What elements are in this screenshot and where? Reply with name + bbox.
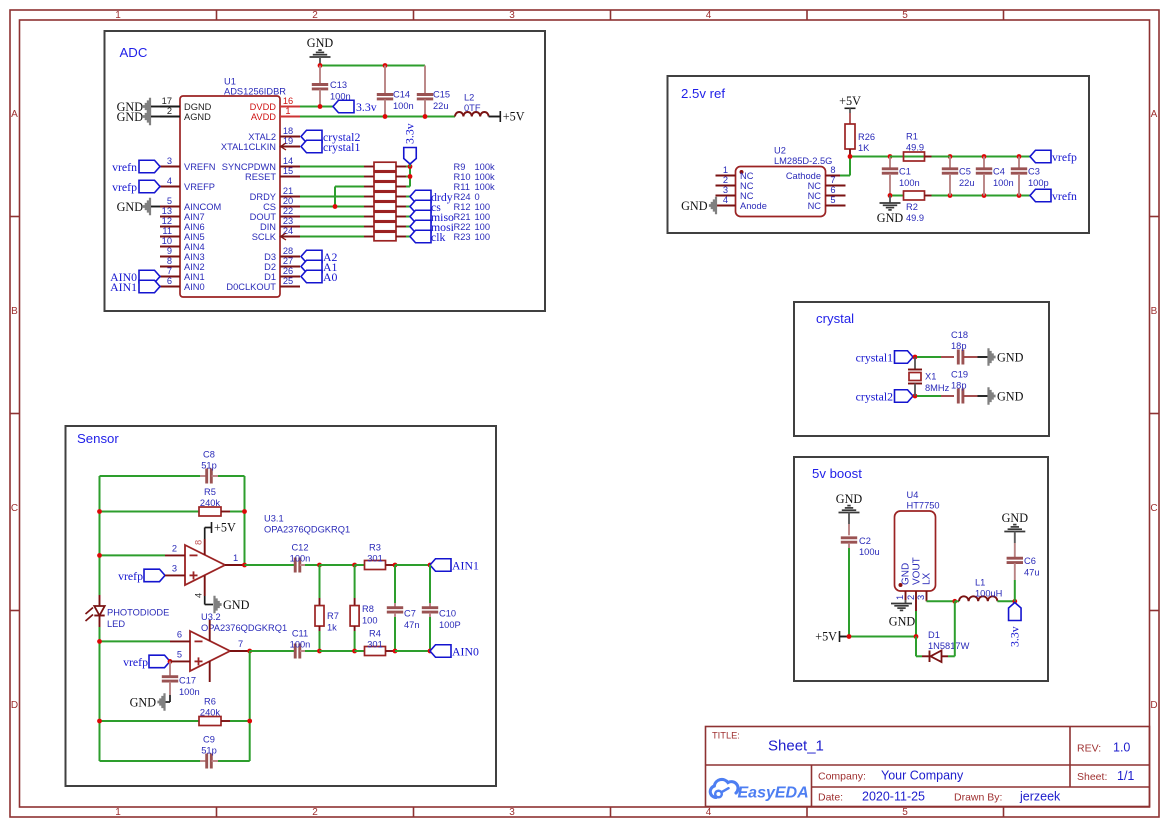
U3.2 pin 5 stub <box>170 660 190 662</box>
svg-text:DOUT: DOUT <box>250 212 277 222</box>
net flag A2 at U1 pin 28 <box>301 250 322 263</box>
capacitor C18 18p <box>941 356 954 358</box>
svg-text:7: 7 <box>167 266 172 276</box>
svg-text:16: 16 <box>283 96 293 106</box>
U3.1 pin 2 stub <box>165 554 185 556</box>
svg-text:5: 5 <box>177 650 182 660</box>
svg-text:7: 7 <box>830 175 835 185</box>
net flag crystal2 at U1 pin 18 <box>301 130 322 143</box>
GND net flag right of C18 <box>987 348 995 365</box>
EasyEDA logo cloud icon <box>710 779 738 797</box>
GND net flag at U2 pin 4 Anode <box>709 197 717 214</box>
svg-text:R12: R12 <box>454 202 471 212</box>
wire C8 row right <box>218 475 245 477</box>
U3.2 minus symbol <box>195 640 203 642</box>
wire VOUT down to +5V rail <box>915 611 917 637</box>
junction right rail R6 <box>247 719 252 724</box>
svg-text:SCLK: SCLK <box>252 232 277 242</box>
wire sensor left rail upper <box>99 476 101 595</box>
svg-text:crystal: crystal <box>816 311 854 326</box>
wire CS to R12 <box>300 206 364 208</box>
wire cathode to R26 <box>840 175 850 177</box>
svg-text:27: 27 <box>283 256 293 266</box>
svg-text:10: 10 <box>162 236 172 246</box>
U3.1 power pin 8 stub <box>204 539 206 555</box>
svg-text:NC: NC <box>740 181 754 191</box>
wire AVDD to L2 <box>300 116 455 118</box>
junction GND rail at C13 <box>318 63 323 68</box>
svg-text:4: 4 <box>706 10 712 21</box>
resistor R21 100 <box>364 216 374 218</box>
svg-text:17: 17 <box>162 96 172 106</box>
net flag AIN1 <box>430 559 451 572</box>
wire sensor right rail upper <box>244 476 246 565</box>
resistor R5 240k <box>199 507 221 516</box>
svg-text:+5V: +5V <box>503 110 525 124</box>
svg-text:ADC: ADC <box>120 45 148 60</box>
svg-text:C11: C11 <box>292 629 308 639</box>
svg-text:100n: 100n <box>290 554 311 564</box>
junction bottom rail C5 <box>948 193 953 198</box>
U1 pin 20 CS <box>280 206 300 208</box>
capacitor C10 100P vertical <box>429 565 431 603</box>
photodiode light arrows <box>86 608 94 615</box>
svg-text:3.3v: 3.3v <box>1008 626 1022 647</box>
svg-text:2: 2 <box>167 106 172 116</box>
svg-text:26: 26 <box>283 266 293 276</box>
svg-text:D2: D2 <box>264 262 276 272</box>
svg-text:240k: 240k <box>200 498 221 508</box>
svg-text:100n: 100n <box>993 178 1014 188</box>
svg-text:5: 5 <box>902 807 908 818</box>
wire R5 row left <box>100 511 200 513</box>
svg-text:23: 23 <box>283 216 293 226</box>
svg-text:Sensor: Sensor <box>77 431 119 446</box>
svg-text:R3: R3 <box>369 543 381 553</box>
svg-text:20: 20 <box>283 196 293 206</box>
svg-text:AIN1: AIN1 <box>452 559 479 573</box>
op-amp U3.1 triangle <box>185 545 225 585</box>
junction LX D1 L1 <box>952 599 957 604</box>
wire R24 to drdy flag <box>406 196 411 198</box>
svg-text:5v boost: 5v boost <box>812 466 862 481</box>
net flag 3.3v at DVDD <box>333 100 354 113</box>
resistor R12 100 <box>364 206 374 208</box>
svg-text:OPA2376QDGKRQ1: OPA2376QDGKRQ1 <box>264 525 350 535</box>
wire crystal2 to C19 <box>917 395 941 397</box>
net flag vrefn at U1 pin 3 <box>139 160 160 173</box>
U1 pin 26 D1 <box>280 276 300 278</box>
junction U3.1 output <box>242 563 247 568</box>
svg-text:AIN6: AIN6 <box>184 222 205 232</box>
svg-text:301: 301 <box>367 554 383 564</box>
svg-text:100: 100 <box>475 212 491 222</box>
svg-text:1: 1 <box>285 106 290 116</box>
GND net flag at U1 pin 5 AINCOM <box>143 198 151 215</box>
svg-text:GND: GND <box>836 492 863 506</box>
wire D1 branch left <box>915 637 917 657</box>
U1 pin 23 DIN <box>280 226 300 228</box>
svg-text:Your Company: Your Company <box>881 769 964 783</box>
inductor L2 <box>455 112 489 117</box>
svg-text:TITLE:: TITLE: <box>712 731 740 741</box>
svg-text:21: 21 <box>283 186 293 196</box>
svg-text:Cathode: Cathode <box>786 171 821 181</box>
svg-text:8: 8 <box>167 256 172 266</box>
svg-text:GND: GND <box>901 563 912 585</box>
resistor R24 0 <box>364 196 374 198</box>
junction R26 output <box>848 154 853 159</box>
svg-text:100k: 100k <box>475 162 496 172</box>
capacitor C7 47n vertical <box>394 565 396 603</box>
svg-text:R11: R11 <box>454 182 470 192</box>
U1 pin 2 AGND <box>160 116 180 118</box>
ADC block border <box>105 31 546 311</box>
wire C11 to R7 bottom <box>305 650 320 652</box>
junction left rail pin2 <box>97 553 102 558</box>
capacitor C12 100n <box>294 558 297 573</box>
title block divider right column <box>1069 727 1071 788</box>
svg-text:U4: U4 <box>907 490 919 500</box>
net flag drdy at R24 <box>410 190 431 203</box>
wire 3.3v pullup rail <box>406 166 410 168</box>
net flag AIN0 <box>430 645 451 658</box>
svg-text:X1: X1 <box>925 372 936 382</box>
frame row ticks right <box>1150 216 1160 218</box>
svg-text:C13: C13 <box>330 80 347 90</box>
svg-text:OPA2376QDGKRQ1: OPA2376QDGKRQ1 <box>201 623 287 633</box>
junction left rail pin6 <box>97 639 102 644</box>
capacitor C9 51p <box>200 760 206 762</box>
svg-text:GND: GND <box>889 615 916 629</box>
net flag AIN0 at U1 pin 7 <box>139 270 160 283</box>
svg-text:VREFP: VREFP <box>184 182 215 192</box>
svg-text:C8: C8 <box>203 450 215 460</box>
U1 pin 28 D3 <box>280 256 300 258</box>
svg-text:R22: R22 <box>454 222 471 232</box>
svg-text:C12: C12 <box>291 543 308 553</box>
svg-text:GND: GND <box>223 598 250 612</box>
svg-text:C6: C6 <box>1024 556 1036 566</box>
wire R6 row left <box>100 720 200 722</box>
U1 pin 17 DGND <box>160 106 180 108</box>
wire R4 to AIN0 flag <box>395 650 430 652</box>
svg-text:6: 6 <box>167 276 172 286</box>
svg-text:AVDD: AVDD <box>251 112 276 122</box>
svg-text:Sheet:: Sheet: <box>1077 771 1107 783</box>
U2 pin 1 marker dot <box>740 170 744 174</box>
wire R7 to R8 bottom <box>320 650 355 652</box>
junction AIN1 row R8 <box>352 563 357 568</box>
svg-text:47n: 47n <box>404 620 420 630</box>
U1 pin 6 AIN0 <box>160 286 180 288</box>
+5V power flag above R26 <box>845 107 856 109</box>
svg-text:GND: GND <box>117 110 144 124</box>
svg-text:AIN0: AIN0 <box>452 645 479 659</box>
junction AIN0 row C7 <box>393 649 398 654</box>
svg-text:AIN2: AIN2 <box>184 262 205 272</box>
wire R8 to R4 <box>355 650 365 652</box>
title block divider below title row <box>706 764 1150 766</box>
resistor R26 1K <box>845 124 855 149</box>
GND net flag at U1 pin 2 AGND <box>143 108 151 125</box>
svg-text:GND: GND <box>997 390 1024 404</box>
svg-text:2.5v ref: 2.5v ref <box>681 86 725 101</box>
GND net flag at U1 pin 17 DGND <box>143 98 151 115</box>
junction pullup rail R10 <box>408 174 413 179</box>
U3.2 plus symbol <box>195 660 203 662</box>
junction U3.2 output <box>247 649 252 654</box>
wire C18 to GND <box>978 356 988 358</box>
U3.2 power stub bottom <box>209 661 211 682</box>
net flag 3.3v vertical in boost <box>1009 603 1022 621</box>
svg-text:5: 5 <box>167 196 172 206</box>
junction AIN0 row R8 <box>352 649 357 654</box>
svg-text:2: 2 <box>723 175 728 185</box>
U1 pin 8 AIN2 <box>160 266 180 268</box>
net flag A0 at U1 pin 26 <box>301 270 322 283</box>
svg-text:2: 2 <box>312 10 318 21</box>
net flag clk at R23 <box>410 230 431 243</box>
svg-text:D: D <box>1150 700 1157 711</box>
svg-text:DGND: DGND <box>184 102 212 112</box>
svg-text:8: 8 <box>830 165 835 175</box>
chip U4 HT7750 body <box>895 511 936 591</box>
junction left rail R6 <box>97 719 102 724</box>
svg-text:clk: clk <box>431 230 446 244</box>
wire R3 to AIN1 flag <box>395 564 430 566</box>
svg-text:100n: 100n <box>179 687 200 697</box>
junction left rail R5 <box>97 509 102 514</box>
U2 pin 2 NC <box>716 185 736 187</box>
U1 pin 19 XTAL1CLKIN <box>280 146 300 148</box>
svg-text:SYNCPDWN: SYNCPDWN <box>222 162 276 172</box>
wire RESET to R10 <box>300 176 364 178</box>
net flag crystal1 at U1 pin 19 <box>301 140 322 153</box>
svg-text:AIN0: AIN0 <box>184 282 205 292</box>
svg-text:C4: C4 <box>993 167 1005 177</box>
svg-text:XTAL1CLKIN: XTAL1CLKIN <box>221 142 276 152</box>
svg-text:R23: R23 <box>454 232 471 242</box>
U3.2 output pin 7 stub <box>230 650 250 652</box>
wire C2 to +5V rail <box>848 548 850 637</box>
svg-text:R24: R24 <box>454 192 471 202</box>
wire SYNCPDWN to R9 <box>300 166 364 168</box>
svg-text:7: 7 <box>238 639 243 649</box>
svg-text:R6: R6 <box>204 697 216 707</box>
svg-text:C14: C14 <box>393 90 410 100</box>
svg-text:2: 2 <box>906 595 916 600</box>
U1 pin 7 AIN1 <box>160 276 180 278</box>
svg-text:4: 4 <box>723 195 728 205</box>
wire DRDY to R24 <box>300 196 364 198</box>
svg-text:A: A <box>1151 109 1158 120</box>
wire L2 to +5V <box>489 116 500 118</box>
junction vrefp C17 <box>168 659 173 664</box>
frame row ticks left <box>10 216 20 218</box>
wire C8 row left <box>100 475 201 477</box>
junction DVDD C13 <box>318 104 323 109</box>
junction crystal2 X1 <box>913 394 918 399</box>
frame column ticks top <box>216 10 218 20</box>
svg-text:3.3v: 3.3v <box>356 100 377 114</box>
svg-text:8: 8 <box>194 540 204 545</box>
svg-text:C5: C5 <box>959 167 971 177</box>
svg-text:5: 5 <box>902 10 908 21</box>
capacitor C15 <box>424 66 426 95</box>
svg-text:Date:: Date: <box>818 792 843 804</box>
svg-text:XTAL2: XTAL2 <box>248 132 276 142</box>
U1 pin 18 XTAL2 <box>280 136 300 138</box>
svg-text:D0CLKOUT: D0CLKOUT <box>226 282 276 292</box>
net flag 3.3v pullup vertical <box>409 164 411 167</box>
junction top rail C5 <box>948 154 953 159</box>
U3.2 power stub top <box>209 620 211 641</box>
U1 pin 13 AIN7 <box>160 216 180 218</box>
wire C6 to 3.3v node <box>1014 580 1016 601</box>
capacitor C3 100p <box>1018 157 1020 169</box>
svg-text:NC: NC <box>740 171 754 181</box>
svg-text:8MHz: 8MHz <box>925 383 950 393</box>
capacitor C2 100u <box>848 524 850 535</box>
svg-text:U1: U1 <box>224 77 236 87</box>
svg-text:301: 301 <box>367 640 383 650</box>
U1 pin 9 AIN3 <box>160 256 180 258</box>
svg-text:11: 11 <box>162 226 172 236</box>
svg-text:100n: 100n <box>899 178 920 188</box>
net flag A1 at U1 pin 27 <box>301 260 322 273</box>
junction AVDD C15 <box>423 114 428 119</box>
U1 pin 11 AIN5 <box>160 236 180 238</box>
wire output row to C11 <box>250 650 295 652</box>
wire C12 to R7 node <box>305 564 320 566</box>
U1 pin 21 DRDY <box>280 196 300 198</box>
svg-text:GND: GND <box>307 36 334 50</box>
resistor R4 301 <box>365 647 386 656</box>
crystal X1 8MHz <box>914 357 916 370</box>
U1 pin 14 SYNCPDWN <box>280 166 300 168</box>
svg-text:PHOTODIODE: PHOTODIODE <box>107 608 169 618</box>
svg-text:AGND: AGND <box>184 112 211 122</box>
wire output row to C12 <box>245 564 296 566</box>
svg-text:VREFN: VREFN <box>184 162 216 172</box>
U3.1 power pin 4 stub <box>204 576 206 597</box>
svg-text:R8: R8 <box>362 604 374 614</box>
net flag vrefp right <box>1030 150 1051 163</box>
svg-text:GND: GND <box>877 211 904 225</box>
capacitor C5 22u <box>949 157 951 169</box>
U4 pin 1 marker dot <box>899 583 903 587</box>
junction bottom rail C1 GND <box>888 193 893 198</box>
svg-text:18p: 18p <box>951 341 967 351</box>
svg-text:+5V: +5V <box>815 630 837 644</box>
svg-text:12: 12 <box>162 216 172 226</box>
U2 pin 3 NC <box>716 195 736 197</box>
svg-text:0: 0 <box>475 192 480 202</box>
svg-text:2: 2 <box>312 807 318 818</box>
svg-text:U2: U2 <box>774 146 786 156</box>
capacitor C8 51p <box>200 475 206 477</box>
net flag vrefp at U3.2 pin 5 <box>149 655 170 668</box>
svg-text:Company:: Company: <box>818 771 866 783</box>
svg-text:L2: L2 <box>464 93 474 103</box>
U3.1 output pin 1 stub <box>225 564 245 566</box>
U1 pin 4 VREFP <box>160 186 180 188</box>
svg-text:R5: R5 <box>204 487 216 497</box>
svg-text:47u: 47u <box>1024 568 1040 578</box>
svg-text:REV:: REV: <box>1077 743 1101 755</box>
svg-text:C9: C9 <box>203 735 215 745</box>
capacitor C19 18p <box>941 395 954 397</box>
junction AIN1 row R7 <box>317 563 322 568</box>
capacitor C11 100n <box>294 644 297 659</box>
svg-text:C7: C7 <box>404 609 416 619</box>
inductor L1 100uH <box>955 600 959 602</box>
svg-text:18: 18 <box>283 126 293 136</box>
5v boost block border <box>794 457 1048 681</box>
svg-text:4: 4 <box>194 593 204 598</box>
svg-text:100k: 100k <box>475 182 496 192</box>
wire D1 to LX node <box>948 655 955 657</box>
svg-text:GND: GND <box>130 696 157 710</box>
title block divider logo cell <box>811 765 813 807</box>
wire DVDD to 3.3v flag <box>300 106 333 108</box>
wire sensor right rail lower <box>249 651 251 761</box>
junction VOUT +5V rail <box>914 634 919 639</box>
svg-text:GND: GND <box>117 200 144 214</box>
svg-text:vrefp: vrefp <box>118 569 143 583</box>
U2 pin 5 NC <box>826 205 846 207</box>
wire C9 row left <box>100 760 201 762</box>
resistor R9 100k <box>364 166 374 168</box>
title block divider date row <box>812 786 1150 788</box>
U1 pin 15 RESET <box>280 176 300 178</box>
junction top rail C1 <box>888 154 893 159</box>
svg-text:DVDD: DVDD <box>250 102 277 112</box>
svg-text:C: C <box>11 503 18 514</box>
svg-text:HT7750: HT7750 <box>907 501 940 511</box>
svg-text:1: 1 <box>233 553 238 563</box>
U3.1 minus symbol <box>190 554 198 556</box>
svg-text:100p: 100p <box>1028 178 1049 188</box>
svg-text:D: D <box>11 700 18 711</box>
junction top rail C4 <box>982 154 987 159</box>
svg-text:100k: 100k <box>475 172 496 182</box>
svg-text:100n: 100n <box>393 101 414 111</box>
svg-text:DIN: DIN <box>260 222 276 232</box>
junction AIN1 row C10 <box>428 563 433 568</box>
svg-text:crystal1: crystal1 <box>856 351 893 365</box>
svg-text:crystal1: crystal1 <box>323 140 360 154</box>
svg-text:0TF: 0TF <box>464 103 481 113</box>
GND net flag below C17 <box>169 695 171 702</box>
wire +5V rail to VOUT <box>849 636 916 638</box>
svg-text:1/1: 1/1 <box>1117 769 1134 783</box>
svg-text:AINCOM: AINCOM <box>184 202 221 212</box>
svg-text:3: 3 <box>723 185 728 195</box>
wire sensor left rail lower <box>99 627 101 761</box>
svg-text:R2: R2 <box>906 202 918 212</box>
svg-text:3: 3 <box>509 807 515 818</box>
svg-text:2020-11-25: 2020-11-25 <box>862 790 925 804</box>
svg-text:Anode: Anode <box>740 201 767 211</box>
svg-text:R1: R1 <box>906 132 918 142</box>
net flag AIN1 at U1 pin 6 <box>139 280 160 293</box>
diode D1 1N5817W <box>922 655 929 657</box>
resistor R2 49.9 <box>904 191 925 200</box>
wire R8 node to R3 <box>355 564 365 566</box>
svg-text:AIN7: AIN7 <box>184 212 205 222</box>
